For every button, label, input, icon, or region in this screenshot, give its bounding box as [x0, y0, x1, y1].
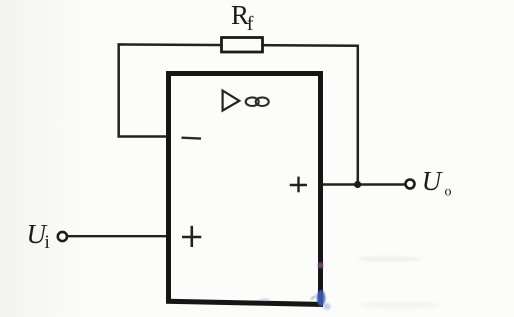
svg-text:f: f	[247, 13, 254, 35]
svg-text:o: o	[445, 185, 452, 200]
svg-text:U: U	[422, 166, 443, 196]
svg-text:i: i	[45, 232, 50, 253]
